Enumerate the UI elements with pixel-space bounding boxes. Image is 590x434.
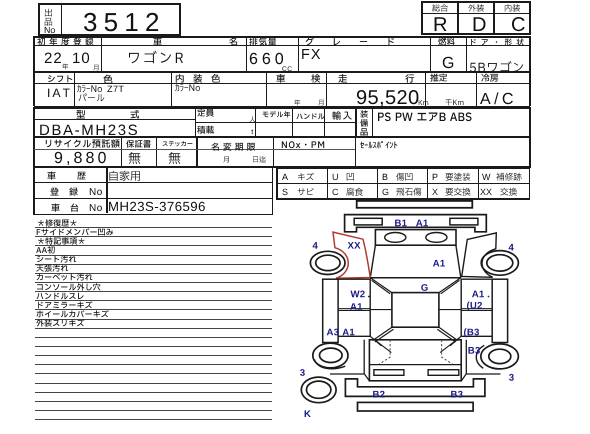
label A1 right door <box>472 291 484 298</box>
jptext: v-sticker-nashi <box>168 163 169 164</box>
jptext: leg-fushoku <box>346 195 347 196</box>
jptext: shuppin-hin <box>44 25 45 26</box>
jptext: note-8 <box>36 299 37 300</box>
cowl ellipse left <box>385 233 406 243</box>
jptext: v-intcolorno <box>175 91 176 92</box>
jptext: h-shadai2 <box>70 211 71 212</box>
jptext: h-color <box>103 83 104 84</box>
jptext: v-body <box>469 72 470 73</box>
jptext: h-shift <box>47 82 48 83</box>
jptext: note-6 <box>36 280 37 281</box>
spare tire <box>301 377 336 403</box>
rear left wheel arch <box>314 360 345 369</box>
front bumper <box>357 201 473 208</box>
jptext: v-km-unit <box>418 105 419 106</box>
left quarter fold lines <box>370 336 391 352</box>
text: leg-a <box>282 180 283 181</box>
jptext: h-teiin-unit <box>249 122 250 123</box>
jptext: h-reibo <box>481 81 482 82</box>
jptext: h-katashiki2 <box>130 118 131 119</box>
jptext: h-shaken2 <box>311 82 312 83</box>
label A3 A1 left rear <box>327 329 355 336</box>
jptext: v-equipment <box>377 121 378 122</box>
jptext: h-haikiryo <box>249 45 250 46</box>
jptext: h-sha <box>153 45 154 46</box>
A-pillar right <box>439 278 461 294</box>
text: v-mileage <box>356 104 357 105</box>
text: lot-number <box>83 31 84 32</box>
jptext: leg-kokan <box>500 195 501 196</box>
label A1 left door <box>350 303 362 310</box>
C-pillar right <box>437 327 457 342</box>
text: leg-xx <box>480 195 481 196</box>
jptext: h-sekisai <box>197 133 198 134</box>
jptext: h-sobi2 <box>360 126 361 127</box>
jptext: v-colorno-label <box>77 92 78 93</box>
jptext: h-handle <box>296 119 297 120</box>
text: v-colorno-val <box>107 92 108 93</box>
jptext: note-5 <box>36 271 37 272</box>
text: v-model-code <box>39 135 40 136</box>
front right wheel <box>481 251 518 276</box>
rear hatch dashed right <box>442 340 453 364</box>
text: leg-s <box>282 195 283 196</box>
left door edge <box>338 279 370 336</box>
rear lower bar <box>358 402 474 411</box>
jptext: shuppin-shutsu <box>44 16 45 17</box>
bonnet bottom edge <box>370 277 461 279</box>
label A1 dot right <box>488 296 490 298</box>
jptext: h-touroku1 <box>50 195 51 196</box>
cowl box <box>375 230 456 246</box>
text: grade-c <box>511 31 512 32</box>
rear hatch inner line <box>369 364 461 366</box>
car damage diagram <box>295 195 590 434</box>
jptext: h-grade4 <box>386 45 387 46</box>
jptext: h-grade2 <box>332 45 333 46</box>
text: v-cc <box>249 64 250 65</box>
jptext: h-modelyear <box>262 117 263 118</box>
jptext: note-10 <box>36 317 37 318</box>
jptext: leg-yokokan <box>445 195 446 196</box>
jptext: h-grade3 <box>359 45 360 46</box>
jptext: h-shareki1 <box>47 179 48 180</box>
label K spare <box>305 410 311 417</box>
jptext: leg-hoshuato <box>496 180 497 181</box>
label 3 right <box>509 374 514 381</box>
text: leg-p <box>432 180 433 181</box>
roof <box>392 293 439 328</box>
jptext: leg-yotoso <box>445 180 446 181</box>
text: leg-c <box>332 195 333 196</box>
rear bumper <box>345 379 485 397</box>
jptext: v-year-unit <box>62 69 63 70</box>
left quarter edge <box>330 340 369 381</box>
tail light right <box>428 370 459 376</box>
label XX <box>348 242 361 249</box>
label 3 left <box>300 369 305 376</box>
jptext: h-shaken1 <box>276 82 277 83</box>
label W2 dot <box>368 296 370 298</box>
table grid lines <box>38 3 181 5</box>
jptext: v-color-pearl <box>78 101 79 102</box>
right door divider <box>439 309 492 311</box>
jptext: v-senkm <box>445 105 446 106</box>
jptext: h-soko2 <box>405 82 406 83</box>
jptext: h-meihen <box>211 150 212 151</box>
text: v-chassis-no <box>108 211 109 212</box>
text: v-recycle-fee <box>54 163 55 164</box>
jptext: h-nox <box>281 148 282 149</box>
tail light left <box>374 370 404 376</box>
jptext: h-touroku2 <box>69 195 70 196</box>
jptext: v-meihen-himade <box>252 162 253 163</box>
text: leg-u <box>332 180 333 181</box>
jptext: h-nenryo <box>438 45 439 46</box>
front panel lamp right <box>450 218 478 225</box>
jptext: h-sekisai-unit <box>251 134 252 135</box>
label B3 right quarter <box>468 347 480 354</box>
jptext: v-shaken-y <box>294 105 295 106</box>
text: leg-x <box>432 195 433 196</box>
front panel lamp left <box>354 218 382 225</box>
text: v-ac <box>480 104 481 105</box>
jptext: h-naiso <box>504 11 505 12</box>
text: v-cc-unit <box>282 71 283 72</box>
jptext: v-carname <box>127 63 128 64</box>
right fender <box>462 233 497 277</box>
right quarter edge <box>461 340 500 381</box>
jptext: note-7 <box>36 290 37 291</box>
right sill panel <box>492 279 507 342</box>
jptext: note-0 <box>37 226 38 227</box>
jptext: h-sogo <box>432 11 433 12</box>
text: leg-g <box>382 195 383 196</box>
jptext: note-4 <box>36 262 37 263</box>
jptext: v-month-unit <box>93 70 94 71</box>
left fender (XX, red outline) <box>333 232 370 278</box>
jptext: h-hoshosho <box>126 147 127 148</box>
jptext: leg-heko <box>346 180 347 181</box>
text: h-touroku-no <box>89 195 90 196</box>
jptext: h-int3 <box>211 82 212 83</box>
jptext: note-3 <box>36 253 37 254</box>
jptext: h-int2 <box>193 82 194 83</box>
rear right wheel arch <box>476 345 484 368</box>
C-pillar left <box>373 327 394 342</box>
label B2 rear bumper <box>373 391 385 398</box>
right quarter fold lines <box>440 336 461 352</box>
jptext: h-sticker <box>162 146 163 147</box>
jptext: h-suitei <box>430 81 431 82</box>
jptext: v-shaken-m <box>318 105 319 106</box>
rear right wheel <box>481 344 519 369</box>
text: v-shift <box>47 97 48 98</box>
left sill panel <box>323 279 338 342</box>
jptext: v-meihen-tsuki <box>223 162 224 163</box>
label 4 right <box>509 244 514 251</box>
jptext: note-1 <box>36 235 37 236</box>
jptext: note-2 <box>37 244 38 245</box>
text: grade-d <box>472 31 473 32</box>
jptext: h-sobi1 <box>360 117 361 118</box>
rear hatch dashed left <box>379 340 390 364</box>
text: h-shadai-no <box>89 211 90 212</box>
bonnet sides <box>370 245 461 277</box>
label B3 right rear paren <box>464 328 479 337</box>
jptext: v-hosho-nashi <box>128 163 129 164</box>
jptext: note-11 <box>36 326 37 327</box>
jptext: h-sobi3 <box>360 135 361 136</box>
rear left wheel <box>313 343 348 368</box>
jptext: h-yunyu <box>332 119 333 120</box>
text: v-grade-fx <box>301 59 302 60</box>
jptext: h-salespoint <box>360 148 361 149</box>
jptext: leg-tobiishi <box>396 195 397 196</box>
jptext: note-9 <box>36 308 37 309</box>
jptext: leg-sabi <box>297 195 298 196</box>
jptext: h-grade1 <box>305 45 306 46</box>
right door edge <box>461 279 492 336</box>
label B3 rear bumper <box>451 391 463 398</box>
jptext: v-shareki <box>108 180 109 181</box>
jptext: h-shadai1 <box>51 211 52 212</box>
rear hatch box <box>369 340 461 381</box>
cowl ellipse right <box>426 233 447 243</box>
jptext: h-mei <box>229 45 230 46</box>
text: leg-w <box>482 180 483 181</box>
label W2 left front door <box>351 291 365 298</box>
label G windshield <box>421 284 428 291</box>
jptext: h-soko1 <box>338 82 339 83</box>
front left wheel <box>310 251 345 274</box>
label A1 bonnet <box>433 260 445 267</box>
text: grade-r <box>433 31 434 32</box>
jptext: h-katashiki1 <box>76 118 77 119</box>
jptext: leg-kizuheko <box>396 180 397 181</box>
label B1 _A1 <box>395 220 428 228</box>
jptext: h-recycle <box>44 147 45 148</box>
label U2 right door <box>467 302 482 311</box>
text: leg-b <box>382 180 383 181</box>
jptext: h-door <box>469 45 470 46</box>
label 4 left <box>313 242 318 249</box>
jptext: h-first-reg <box>37 45 38 46</box>
A-pillar left <box>370 278 392 294</box>
jptext: leg-kizu <box>297 180 298 181</box>
jptext: h-shareki2 <box>77 179 78 180</box>
jptext: h-teiin <box>197 116 198 117</box>
text: shuppin-no <box>44 33 45 34</box>
text: v-year <box>44 63 45 64</box>
left door divider <box>338 309 392 311</box>
front panel <box>345 215 487 232</box>
text: v-month <box>72 63 73 64</box>
jptext: h-gaiso <box>468 11 469 12</box>
text: v-fuel <box>442 68 443 69</box>
jptext: h-int1 <box>175 82 176 83</box>
